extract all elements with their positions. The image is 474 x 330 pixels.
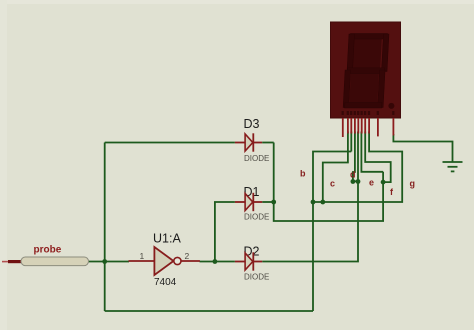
svg-text:c: c (330, 178, 335, 188)
wire: D3 riser down and across to node e/f (274, 143, 383, 222)
wire: segment b riser (313, 152, 351, 312)
svg-text:d: d (350, 169, 356, 179)
wire: display common to ground (393, 134, 452, 162)
svg-text:U1:A: U1:A (153, 232, 181, 246)
wire: gate output to D2 anode (200, 261, 235, 263)
node: b tap on D1 row (311, 200, 316, 205)
svg-text:e: e (369, 178, 374, 188)
probe (2, 245, 89, 266)
svg-text:DIODE: DIODE (244, 213, 269, 222)
diode D2 (235, 245, 269, 282)
svg-text:1: 1 (140, 251, 145, 261)
node: D3 tap on D1 row (271, 200, 276, 205)
svg-text:b: b (300, 169, 306, 179)
svg-text:7404: 7404 (154, 277, 177, 288)
wire: segment c riser (323, 132, 348, 203)
wire: bottom row (105, 310, 313, 312)
svg-text:DIODE: DIODE (244, 154, 269, 163)
pin number marks inside body (342, 111, 395, 115)
wire: D3 input row from node A (105, 142, 235, 144)
7-segment digit (all segments off) (343, 34, 389, 109)
svg-text:probe: probe (34, 245, 62, 256)
diode D1 (235, 185, 269, 222)
node: d junction right (356, 179, 361, 184)
node: probe junction (102, 259, 107, 264)
diode D3 (235, 117, 274, 163)
node: d junction left (351, 179, 356, 184)
decimal point (388, 103, 394, 109)
wire: node A vertical (probe net) (104, 143, 106, 312)
display pins (343, 118, 394, 137)
node: gate output junction (213, 259, 218, 264)
svg-text:DIODE: DIODE (244, 273, 269, 282)
ground (443, 162, 463, 171)
wire: D1 cathode stub to D3 riser (262, 201, 274, 203)
wire: pin3 drop to b (350, 132, 352, 152)
wire: branch up to D1 (215, 202, 235, 262)
node: e/f junction (381, 180, 386, 185)
wire: b/c bus row to segment g riser (313, 132, 402, 203)
7-segment display body (331, 22, 401, 118)
wire: probe to gate input (88, 261, 129, 263)
svg-text:D3: D3 (244, 117, 260, 131)
wire: D2 row to segment d riser (262, 132, 358, 262)
svg-text:g: g (410, 179, 416, 189)
wire: pin4 jog to d (353, 132, 358, 182)
svg-text:2: 2 (185, 251, 190, 261)
wire: pin6 drop to e (361, 132, 383, 172)
node: c tap on D1 row (320, 200, 325, 205)
inverter gate U1:A (7404) (129, 232, 200, 289)
wire: pin7 hook to f (365, 132, 391, 183)
